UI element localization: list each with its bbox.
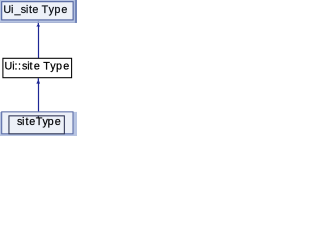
bottom outer slate rect bbox=[2, 112, 73, 134]
svg-text:Ui::siteType: Ui::siteType bbox=[5, 61, 70, 73]
edge tip tint under highlight band bbox=[38, 21, 39, 23]
svg-text:Ui_siteType: Ui_siteType bbox=[3, 4, 67, 16]
top band right dark stripe bbox=[75, 0, 77, 23]
page background bbox=[0, 0, 77, 136]
edge wire Ui::siteType to Ui_siteType bbox=[38, 26, 39, 58]
node Ui_siteType box bbox=[2, 2, 73, 20]
top band bottom edge bbox=[0, 21, 77, 24]
node siteType box bbox=[9, 116, 64, 134]
svg-text:siteType: siteType bbox=[17, 116, 61, 128]
edge arrowhead to Ui_siteType bbox=[36, 23, 40, 27]
edge arrowhead to Ui::siteType bbox=[36, 78, 40, 83]
top highlight band bbox=[0, 0, 77, 22]
edge stub inside siteType box bbox=[38, 116, 39, 118]
edge wire siteType to Ui::siteType bbox=[38, 84, 39, 112]
bottom highlight band bbox=[0, 112, 77, 136]
node Ui::siteType box bbox=[3, 58, 72, 77]
